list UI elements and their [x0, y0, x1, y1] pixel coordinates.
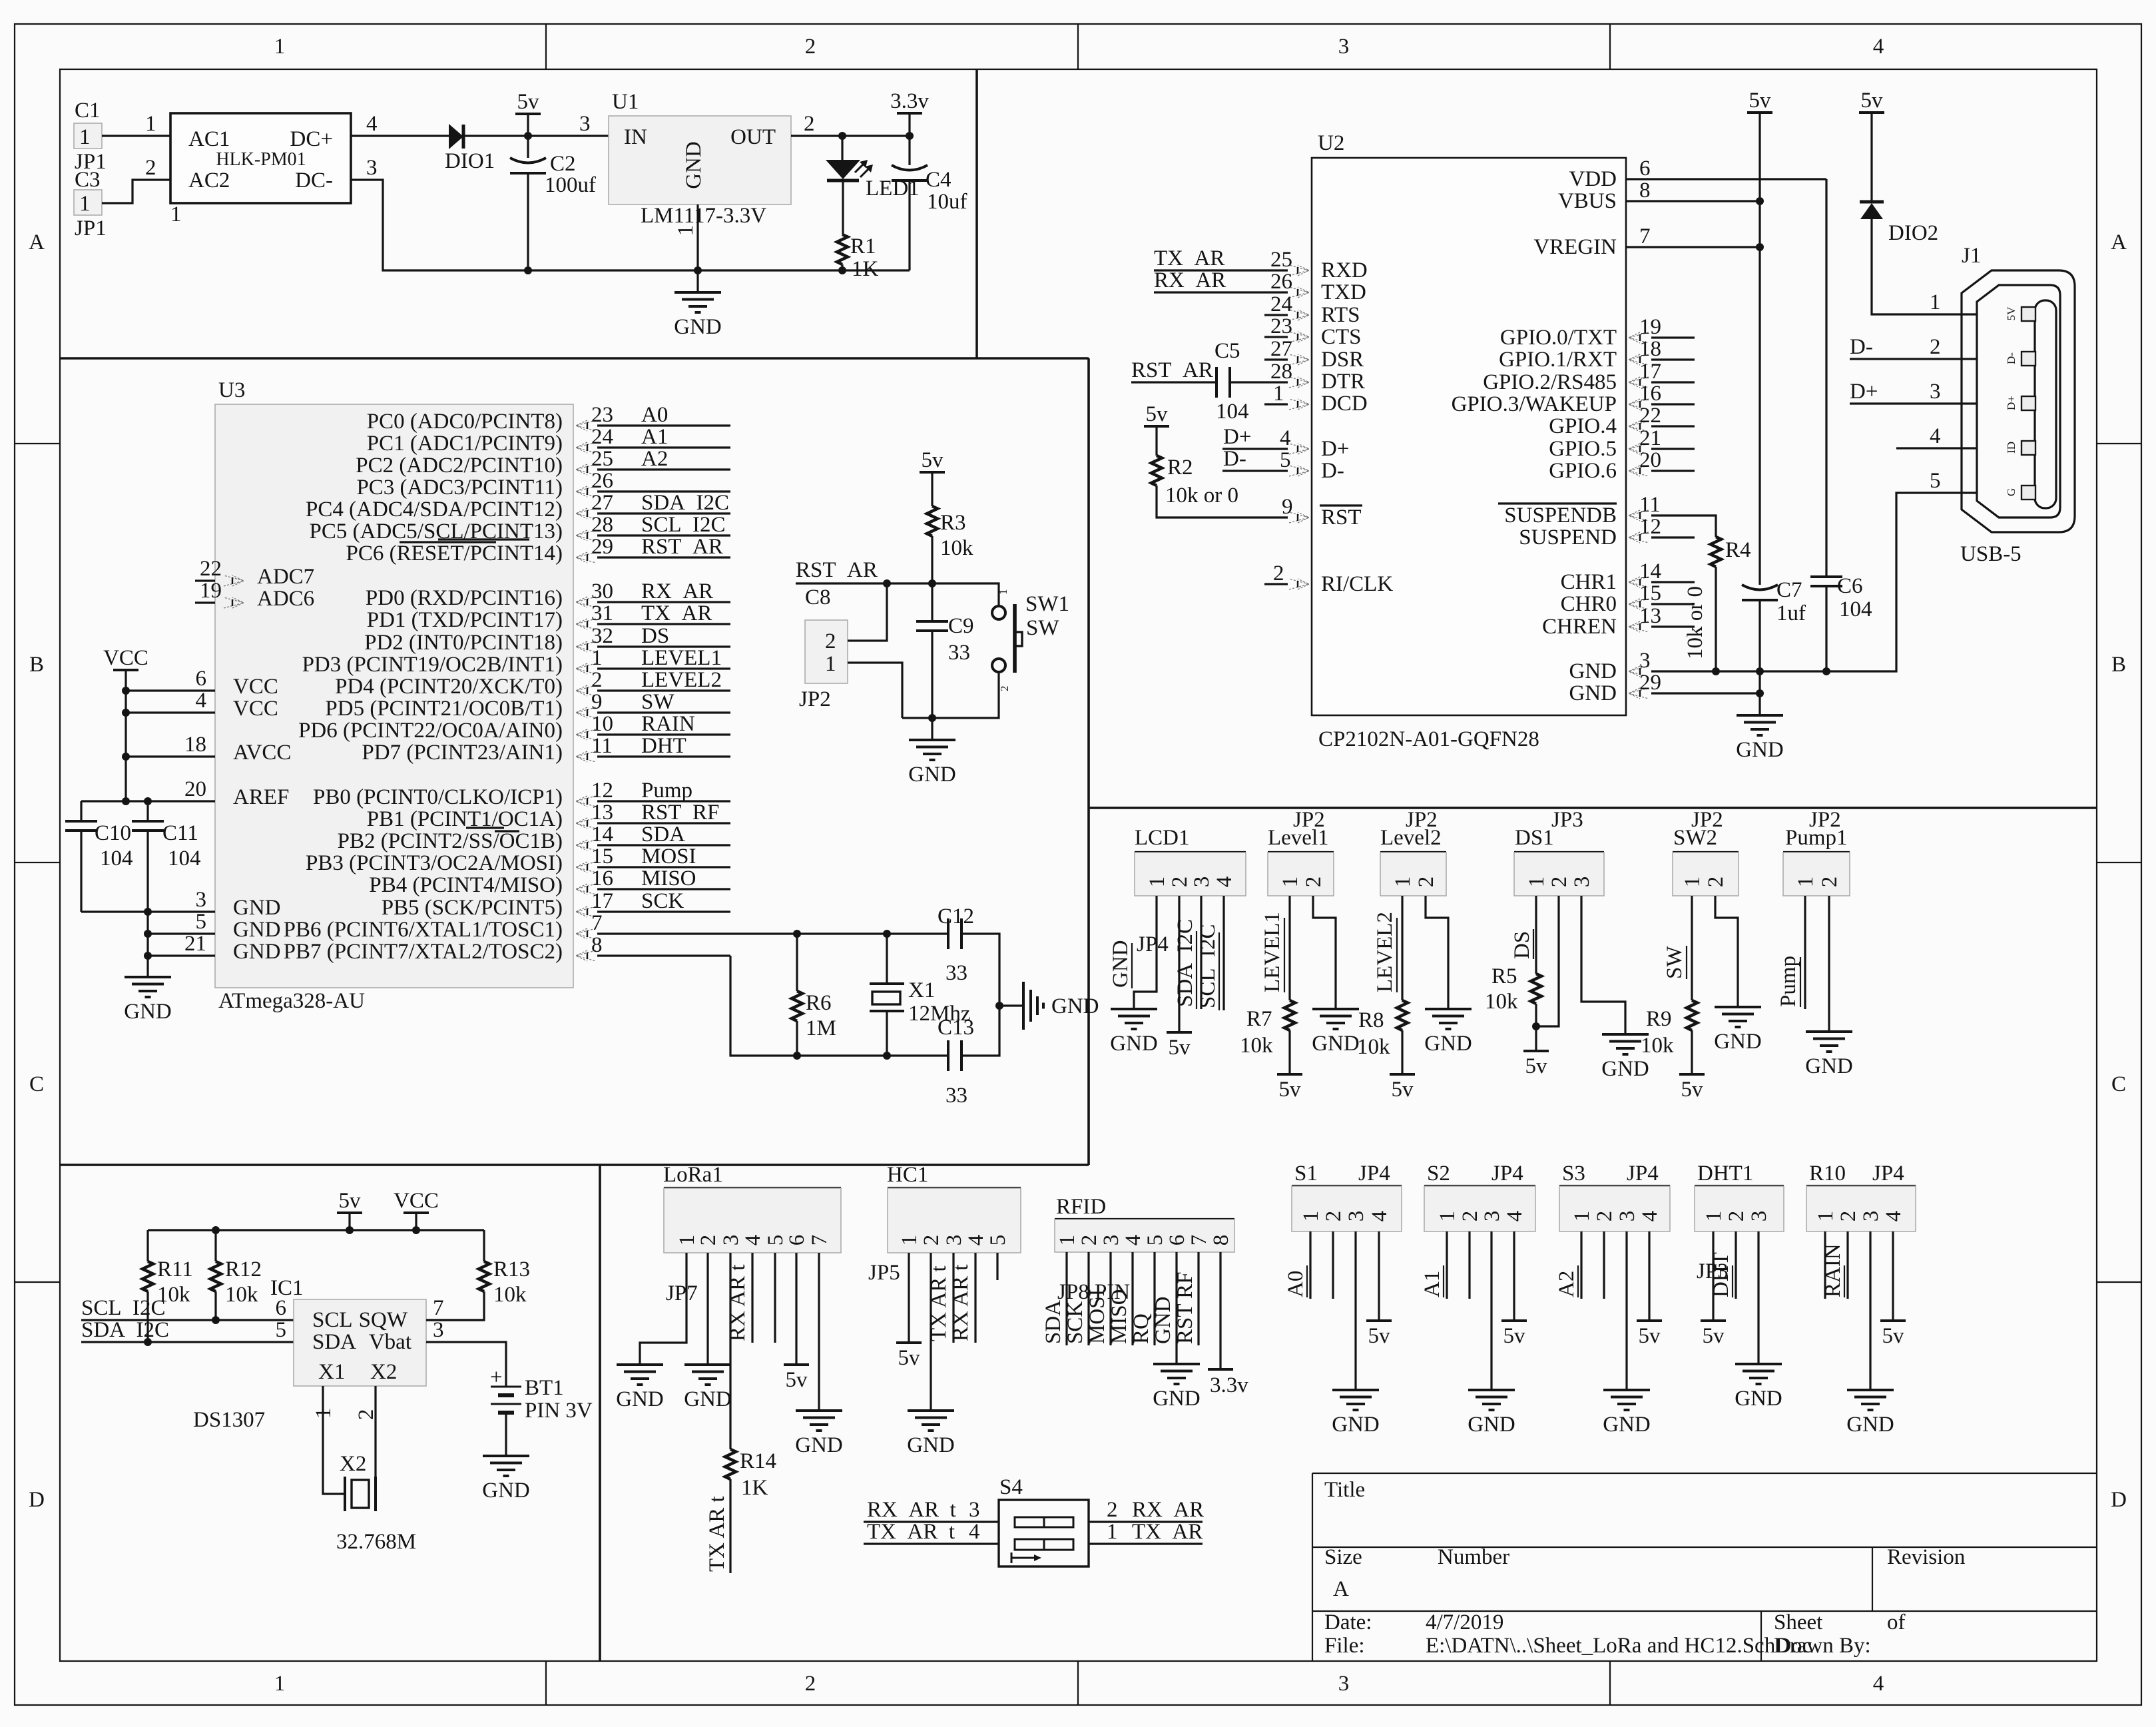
svg-text:18: 18 [1639, 337, 1661, 361]
connector LoRa1 body [664, 1188, 841, 1253]
junction X1 bottom [883, 1052, 891, 1060]
svg-text:AC1: AC1 [188, 127, 230, 151]
svg-text:20: 20 [1639, 448, 1661, 472]
svg-text:D+: D+ [2005, 396, 2018, 410]
svg-text:2: 2 [1168, 876, 1192, 888]
svg-text:15: 15 [591, 845, 613, 868]
wire DIO1 to U1 IN [464, 135, 609, 137]
underline SDA I2C [1196, 931, 1197, 1009]
connector JP1 (C3) 1-pin box [74, 190, 102, 216]
crystal X1 [870, 934, 904, 1056]
svg-text:16: 16 [1639, 382, 1661, 406]
power 3.3v [890, 89, 929, 113]
wire RFID pin SDA [1065, 1252, 1067, 1345]
svg-text:TX AR t: TX AR t [705, 1496, 729, 1572]
IC U3 ATmega328 body [215, 404, 573, 988]
svg-text:1: 1 [79, 192, 91, 216]
svg-text:Pump1: Pump1 [1785, 826, 1848, 850]
connector HC1 body [888, 1188, 1021, 1253]
wire RX AR to TXD pin 26 [1154, 291, 1288, 293]
pin arrow ADC6 [224, 597, 244, 608]
wire R9 to 5v [1691, 1030, 1693, 1074]
junction 3.3v node [906, 132, 914, 140]
power 5v S1 [1366, 1321, 1392, 1348]
wire LoRa1 pin4 [751, 1253, 753, 1343]
svg-text:PD1 (TXD/PCINT17): PD1 (TXD/PCINT17) [367, 608, 563, 632]
connector JP2 (C8) box [805, 620, 848, 683]
wire LCD1 pin4 SCL [1222, 896, 1224, 1010]
svg-text:C4: C4 [926, 168, 951, 192]
switch SW1 [992, 604, 1022, 673]
connector S2 body [1424, 1186, 1535, 1231]
svg-text:4: 4 [196, 689, 207, 713]
junction VCC pin4 [122, 709, 130, 717]
svg-text:PB2 (PCINT2/SS/OC1B): PB2 (PCINT2/SS/OC1B) [338, 829, 563, 853]
capacitor C7 [1742, 585, 1778, 671]
svg-text:1: 1 [1702, 1211, 1726, 1222]
wire U1 GND pin1 [696, 204, 698, 270]
svg-text:10k or 0: 10k or 0 [1683, 586, 1707, 659]
underline A0 [1306, 1265, 1308, 1297]
IC IC1 DS1307 body [294, 1299, 426, 1386]
svg-text:Vbat: Vbat [369, 1330, 411, 1354]
connector DS1 body [1514, 852, 1604, 896]
svg-text:R5: R5 [1491, 964, 1517, 988]
svg-text:PIN 3V: PIN 3V [525, 1399, 593, 1423]
svg-text:33: 33 [945, 1084, 967, 1108]
wire USB pin4 stub [1896, 447, 1977, 449]
svg-text:HLK-PM01: HLK-PM01 [216, 149, 306, 170]
svg-text:VCC: VCC [233, 697, 278, 721]
svg-text:4: 4 [1503, 1211, 1527, 1222]
wire ADC7 stub pin 22 [195, 579, 215, 581]
svg-text:7: 7 [1187, 1235, 1211, 1246]
svg-text:1: 1 [1278, 876, 1302, 888]
junction GND29 [1756, 689, 1764, 697]
resistor R9 [1687, 1000, 1697, 1030]
svg-text:C7: C7 [1776, 578, 1802, 602]
svg-text:R1: R1 [850, 234, 876, 258]
wire GND pin 21 [148, 954, 215, 956]
resistor R3 [927, 506, 938, 536]
svg-text:4: 4 [741, 1235, 765, 1246]
svg-text:2: 2 [1704, 876, 1728, 888]
svg-text:U3: U3 [218, 378, 245, 402]
svg-text:6: 6 [1639, 157, 1651, 180]
pin arrow GPIO.2 and stub 17 [1629, 377, 1649, 388]
svg-text:5: 5 [196, 910, 207, 934]
svg-text:4: 4 [1882, 1211, 1906, 1222]
svg-text:GND: GND [233, 896, 281, 920]
wire AREF pin 20 [81, 800, 215, 802]
svg-text:27: 27 [591, 491, 613, 515]
resistor R13 [426, 1230, 489, 1320]
svg-text:C13: C13 [938, 1016, 974, 1040]
wire R7 to 5v [1288, 1030, 1290, 1074]
junction R4 gnd [1712, 667, 1720, 675]
pin 8 wire of U3 [597, 954, 730, 956]
svg-text:4: 4 [1638, 1211, 1662, 1222]
svg-text:DIO2: DIO2 [1888, 221, 1938, 245]
connector DHT1 body [1695, 1186, 1784, 1231]
wire S1 pin2 stub [1332, 1231, 1334, 1299]
pin arrow U3 pin 26 [576, 486, 596, 497]
svg-text:3: 3 [1930, 380, 1941, 404]
underline LEVEL1 [1284, 918, 1285, 992]
svg-text:File:: File: [1324, 1634, 1365, 1658]
svg-text:SDA: SDA [312, 1330, 356, 1354]
ground GND S3 [1603, 1390, 1651, 1437]
wire DS1 pin2 [1536, 896, 1559, 1026]
resistor R1 [837, 234, 848, 264]
wire Vbat pin3 to battery [426, 1342, 506, 1387]
svg-text:Revision: Revision [1887, 1545, 1965, 1569]
svg-text:RX AR: RX AR [1132, 1498, 1204, 1522]
svg-text:4/7/2019: 4/7/2019 [1426, 1610, 1503, 1634]
wire U1 OUT pin2 [791, 135, 910, 137]
wire SQW pin7 [426, 1319, 484, 1321]
svg-text:MOSI: MOSI [1085, 1289, 1109, 1344]
pin arrow RXD [1289, 265, 1309, 276]
svg-text:C12: C12 [938, 904, 974, 928]
connector RFID body [1055, 1219, 1234, 1252]
svg-text:D-: D- [1321, 459, 1344, 483]
svg-text:D-: D- [1223, 447, 1246, 471]
svg-text:PB7 (PCINT7/XTAL2/TOSC2): PB7 (PCINT7/XTAL2/TOSC2) [284, 940, 563, 964]
wire 5v to R2 [1155, 426, 1157, 456]
svg-text:2: 2 [1547, 876, 1571, 888]
svg-text:E:\DATN\..\Sheet_LoRa and HC12: E:\DATN\..\Sheet_LoRa and HC12.SchDoc [1426, 1634, 1812, 1658]
svg-text:3: 3 [1190, 876, 1214, 888]
svg-text:S1: S1 [1294, 1162, 1318, 1186]
svg-text:2: 2 [1414, 876, 1438, 888]
underline LEVEL2 [1396, 918, 1398, 992]
svg-text:3: 3 [1480, 1211, 1504, 1222]
svg-text:32: 32 [591, 624, 613, 648]
svg-text:+: + [490, 1365, 503, 1389]
border column ticks top [546, 24, 1610, 69]
svg-text:19: 19 [200, 579, 222, 603]
wire R10 pin2 net RAIN [1846, 1231, 1848, 1299]
svg-text:3: 3 [942, 1235, 966, 1246]
svg-text:1: 1 [1299, 1211, 1323, 1222]
pin arrow U3 pin 9 [576, 707, 596, 718]
svg-text:PC3 (ADC3/PCINT11): PC3 (ADC3/PCINT11) [356, 476, 563, 500]
svg-text:C11: C11 [162, 821, 198, 845]
svg-text:PB1 (PCINT1/OC1A): PB1 (PCINT1/OC1A) [367, 807, 563, 831]
svg-text:2: 2 [1458, 1211, 1482, 1222]
ground GND LoRa1 pin1 [616, 1365, 664, 1411]
svg-text:JP7: JP7 [666, 1281, 698, 1305]
wire Pump1 pin2 to gnd [1828, 896, 1830, 1032]
svg-text:R6: R6 [806, 991, 832, 1015]
svg-text:C5: C5 [1214, 339, 1240, 363]
power 5v feeding VBUS rail [1747, 89, 1772, 113]
wire BT1 to gnd [505, 1413, 507, 1456]
svg-text:3: 3 [366, 156, 378, 180]
svg-text:DSR: DSR [1321, 348, 1364, 372]
svg-text:R11: R11 [157, 1257, 193, 1281]
overline RESET on PC6 [438, 538, 529, 540]
svg-text:2: 2 [825, 629, 836, 653]
wire DIO2 to USB pin1 [1872, 219, 1977, 314]
svg-text:14: 14 [591, 823, 613, 847]
power 5v above R3 [920, 448, 945, 472]
svg-text:PB4 (PCINT4/MISO): PB4 (PCINT4/MISO) [369, 873, 563, 897]
ground GND BT1 [482, 1456, 530, 1503]
svg-text:5V: 5V [2005, 306, 2018, 321]
wire R10 pin1 stub [1824, 1231, 1826, 1299]
svg-text:1: 1 [898, 1235, 922, 1246]
pin arrow GND29 [1629, 688, 1649, 699]
ground GND SW2 [1714, 1007, 1762, 1054]
svg-text:GND: GND [682, 141, 706, 189]
svg-text:7: 7 [591, 911, 603, 935]
svg-text:3: 3 [1344, 1211, 1368, 1222]
wire S1 pin1 net A0 [1309, 1231, 1311, 1299]
svg-text:10k: 10k [1357, 1035, 1390, 1059]
svg-text:CHREN: CHREN [1542, 615, 1617, 639]
wire U3 pin 15 net MOSI [597, 866, 730, 868]
USB pad 5V [2005, 306, 2035, 321]
switch S4 body [999, 1500, 1089, 1566]
svg-text:2: 2 [920, 1235, 943, 1246]
svg-text:PC0 (ADC0/PCINT8): PC0 (ADC0/PCINT8) [367, 410, 563, 434]
svg-text:5: 5 [1280, 448, 1291, 472]
wire 5v vertical rail to C7 [1758, 113, 1760, 585]
svg-text:13: 13 [1639, 604, 1661, 628]
wire VCC stub [415, 1213, 417, 1230]
svg-text:LCD1: LCD1 [1135, 826, 1190, 850]
svg-text:25: 25 [1270, 248, 1292, 272]
svg-text:1: 1 [1273, 382, 1284, 406]
wire S2 pin3 to gnd [1490, 1231, 1492, 1390]
wire HC1 pin2 to gnd [930, 1253, 932, 1411]
wire LCD1 pin2 to 5v [1178, 896, 1180, 1032]
svg-text:GPIO.5: GPIO.5 [1549, 437, 1617, 461]
svg-text:PC2 (ADC2/PCINT10): PC2 (ADC2/PCINT10) [356, 454, 563, 478]
pin arrow SUSPENDB [1629, 510, 1649, 521]
svg-text:U2: U2 [1318, 131, 1344, 155]
svg-text:ID: ID [2005, 442, 2018, 454]
svg-text:SCL: SCL [312, 1308, 353, 1332]
wire GND rail down [1758, 671, 1760, 715]
svg-text:2: 2 [804, 112, 815, 136]
pin arrow U3 pin 7 [576, 928, 596, 939]
svg-text:4: 4 [1121, 1235, 1145, 1246]
svg-text:R7: R7 [1246, 1007, 1272, 1031]
svg-text:BT1: BT1 [525, 1376, 564, 1400]
svg-text:5: 5 [986, 1235, 1010, 1246]
pin arrow GPIO.0 and stub 19 [1629, 332, 1649, 343]
svg-text:MISO: MISO [1107, 1289, 1131, 1344]
svg-text:D: D [2111, 1488, 2127, 1512]
wire to rotated gnd [999, 1004, 1023, 1006]
svg-text:10k: 10k [1240, 1034, 1273, 1058]
power VCC DS1307 [394, 1189, 439, 1213]
svg-text:D-: D- [2005, 352, 2018, 364]
resistor R12 [210, 1230, 221, 1320]
underline PCINT1 on PB1 [466, 827, 504, 829]
svg-text:DS: DS [641, 624, 669, 648]
pin arrow CHR0 and stub 15 [1629, 599, 1649, 609]
svg-text:AVCC: AVCC [233, 741, 291, 765]
underline GND net label [1131, 943, 1133, 988]
svg-text:26: 26 [591, 469, 613, 493]
svg-text:SCL I2C: SCL I2C [81, 1296, 166, 1320]
svg-text:1: 1 [675, 1235, 699, 1246]
svg-text:10: 10 [591, 712, 613, 736]
svg-text:3: 3 [1615, 1211, 1639, 1222]
svg-text:4: 4 [969, 1520, 980, 1544]
wire TX AR to RXD pin 25 [1154, 269, 1288, 271]
junction VCC rail AREF [122, 797, 130, 805]
wire U3 pin 26 net nc [597, 490, 730, 492]
wire LCD1 pin3 SDA [1200, 896, 1202, 1009]
svg-text:7: 7 [808, 1235, 832, 1246]
svg-text:2: 2 [1593, 1211, 1617, 1222]
svg-text:1: 1 [170, 202, 182, 226]
svg-text:1: 1 [1794, 876, 1818, 888]
svg-text:A0: A0 [1284, 1271, 1308, 1297]
svg-text:3: 3 [719, 1235, 743, 1246]
section divider mcu-section bottom [60, 1164, 1089, 1166]
ground GND under U3 [124, 977, 172, 1024]
wire GND pin 5 [148, 932, 215, 934]
pin arrow DSR [1289, 354, 1309, 365]
svg-text:1: 1 [1681, 876, 1705, 888]
battery BT1 [491, 1387, 521, 1413]
svg-text:D+: D+ [1223, 425, 1251, 449]
wire S2 pin2 stub [1468, 1231, 1470, 1299]
capacitor C10 [65, 801, 97, 912]
wire S3 pin1 net A2 [1580, 1231, 1582, 1299]
svg-text:SDA: SDA [641, 823, 685, 847]
wire RST AR row [796, 583, 999, 606]
resistor R5 [1531, 974, 1541, 1004]
svg-text:10k: 10k [225, 1283, 258, 1307]
svg-text:DC-: DC- [295, 169, 333, 192]
svg-text:A1: A1 [641, 425, 668, 449]
power 5v at C2 [515, 90, 541, 114]
junction GND21 trunk [144, 952, 152, 960]
svg-text:4: 4 [366, 112, 378, 136]
svg-text:3: 3 [1639, 649, 1651, 673]
title block frame [1312, 1473, 2097, 1661]
svg-text:DIO1: DIO1 [445, 149, 495, 173]
junction VCC rail [412, 1226, 420, 1234]
overline SS on PB2 [495, 830, 519, 832]
wire GND pin 29 [1651, 692, 1760, 694]
svg-text:16: 16 [591, 866, 613, 890]
junction C11 top [144, 797, 152, 805]
connector Level1 body [1268, 852, 1334, 896]
wire U3 pin 28 net SCL&#160;&#160;I2C [597, 534, 730, 536]
svg-text:C8: C8 [805, 585, 831, 609]
svg-text:B: B [29, 653, 44, 677]
wire U3 pin 11 net DHT [597, 755, 730, 757]
wire D- to pin 5 [1222, 470, 1288, 472]
svg-text:2: 2 [805, 1672, 816, 1696]
svg-text:VDD: VDD [1569, 167, 1617, 191]
svg-text:24: 24 [591, 425, 613, 449]
svg-text:2: 2 [805, 35, 816, 59]
junction node at DIO1/C2/5v [524, 132, 532, 140]
svg-text:33: 33 [945, 961, 967, 985]
junction C7 gnd [1756, 667, 1764, 675]
connector Level2 body [1380, 852, 1446, 896]
wire VCC pin 4 [126, 711, 215, 713]
svg-text:A2: A2 [641, 447, 668, 471]
svg-text:2: 2 [1107, 1498, 1118, 1522]
wire LCD1 pin1 to gnd [1134, 896, 1157, 1009]
wire S3 pin3 to gnd [1625, 1231, 1627, 1390]
svg-text:2: 2 [1322, 1211, 1346, 1222]
wire U3 pin 1 net LEVEL1 [597, 667, 730, 669]
svg-text:2: 2 [1302, 876, 1326, 888]
svg-text:3: 3 [1338, 35, 1350, 59]
wire 5v to DIO2 [1870, 113, 1872, 202]
svg-text:3: 3 [1338, 1672, 1350, 1696]
svg-text:4: 4 [1873, 1672, 1884, 1696]
junction R3 C9 node [928, 579, 936, 587]
pin arrow GPIO.5 and stub 21 [1629, 444, 1649, 454]
wire U3 pin 24 net A1 [597, 446, 730, 448]
junction U1 gnd rail [694, 266, 702, 274]
wire S2 pin4 to 5v [1513, 1231, 1515, 1321]
svg-text:G: G [2005, 488, 2018, 496]
connector R10 body [1806, 1186, 1916, 1231]
svg-text:9: 9 [1282, 495, 1293, 519]
wire CTS stub [1264, 336, 1288, 338]
svg-text:CTS: CTS [1321, 325, 1362, 349]
svg-text:4: 4 [1930, 424, 1941, 448]
svg-text:5: 5 [1143, 1235, 1167, 1246]
svg-text:RX AR: RX AR [1154, 268, 1226, 292]
junction C2 rail [524, 266, 532, 274]
svg-text:CP2102N-A01-GQFN28: CP2102N-A01-GQFN28 [1318, 727, 1539, 751]
power 5v Level1 [1277, 1074, 1302, 1102]
pin arrow GPIO.1 and stub 18 [1629, 354, 1649, 365]
underline DS [1533, 929, 1534, 959]
power 5v LoRa1 [784, 1365, 809, 1392]
connector J1 USB-5 outer shell [1962, 270, 2075, 532]
pin arrow U3 pin 17 [576, 906, 596, 917]
capacitor C4 [892, 165, 928, 270]
pin arrow U3 pin 2 [576, 685, 596, 696]
pin arrow RST [1289, 512, 1309, 523]
svg-text:AC2: AC2 [188, 169, 230, 192]
svg-text:2: 2 [145, 156, 156, 180]
junction C6 gnd [1822, 667, 1830, 675]
ground GND Pump1 [1805, 1032, 1853, 1078]
wire S2 pin1 net A1 [1446, 1231, 1448, 1299]
wire S1 pin3 to gnd [1354, 1231, 1356, 1390]
svg-text:D: D [29, 1488, 45, 1512]
border row ticks right [2097, 444, 2141, 1282]
underline SCL I2C [1218, 932, 1220, 1010]
wire U3 pin 12 net Pump [597, 800, 730, 802]
svg-text:TX AR t: TX AR t [927, 1265, 951, 1341]
capacitor C6 [1810, 179, 1842, 671]
svg-text:DC+: DC+ [290, 127, 333, 151]
svg-text:SW: SW [641, 690, 674, 714]
svg-text:22: 22 [200, 557, 222, 581]
svg-text:15: 15 [1639, 581, 1661, 605]
svg-text:C10: C10 [95, 821, 131, 845]
wire Pump1 pin1 [1804, 896, 1806, 1009]
wire IC1 X1 pin to crystal [323, 1386, 345, 1494]
